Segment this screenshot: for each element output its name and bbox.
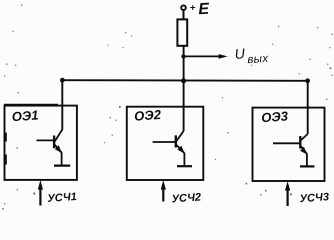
arrowhead emitter VT2 [177,146,184,154]
box OE1 left edge ink blobs [4,133,7,142]
arrow input UST3 [287,185,289,206]
svg-text:ОЭ1: ОЭ1 [11,107,39,124]
box stage OE3 [253,108,325,181]
arrowhead emitter VT3 [300,147,307,155]
transistor VT2 [153,131,192,166]
arrowhead output [219,54,228,59]
wire terminal to resistor R [183,10,185,19]
wire bus drop to VT3 collector [307,81,309,134]
node junction bus [181,78,186,83]
wire output [184,55,221,57]
transistor VT1 [37,130,71,166]
arrow input UST1 [39,184,41,206]
resistor R [177,19,187,45]
svg-text:УСЧ2: УСЧ2 [171,191,201,205]
svg-text:ОЭ2: ОЭ2 [134,107,162,124]
wire bus drop to VT1 collector [61,80,63,130]
wire resistor down through bus to transistor VT2 collector [183,46,185,131]
arrow input UST2 [162,184,164,202]
wire bus horizontal [62,79,307,82]
transistor VT3 [273,134,315,166]
svg-text:ОЭ3: ОЭ3 [261,108,289,125]
svg-text:УСЧ3: УСЧ3 [299,191,329,205]
box stage OE1 [5,106,77,180]
box stage OE2 [127,107,204,180]
svg-text:вых: вых [247,53,269,66]
svg-text:+: + [190,2,196,13]
box OE1 top edge heavy ink [4,104,58,106]
terminal +E [181,5,186,10]
node bus left corner [60,78,65,83]
arrowhead emitter VT1 [55,145,62,153]
svg-text:УСЧ1: УСЧ1 [47,191,77,205]
node bus right corner [305,78,310,83]
node junction output [181,54,185,58]
